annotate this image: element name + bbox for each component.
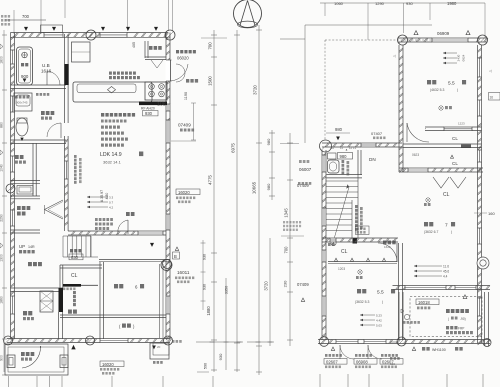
svg-text:1345: 1345 <box>284 208 289 218</box>
svg-text:02607: 02607 <box>326 359 338 364</box>
svg-text:980: 980 <box>335 127 343 132</box>
svg-text:16011: 16011 <box>177 270 190 275</box>
svg-text:4775: 4775 <box>208 175 213 185</box>
svg-text:5.5: 5.5 <box>448 81 455 87</box>
svg-text:16020: 16020 <box>102 362 114 367</box>
svg-text:12 13: 12 13 <box>349 146 356 150</box>
svg-text:1290: 1290 <box>375 1 385 6</box>
svg-text:14R: 14R <box>28 245 35 249</box>
svg-text:11: 11 <box>340 146 343 150</box>
svg-text:16018: 16018 <box>418 300 430 305</box>
svg-text:5.03: 5.03 <box>376 324 382 328</box>
svg-text:1616: 1616 <box>41 69 52 74</box>
svg-text:WH1100: WH1100 <box>432 348 446 352</box>
svg-text:1300: 1300 <box>0 254 4 262</box>
svg-text:0.7: 0.7 <box>109 201 114 205</box>
svg-text:CL: CL <box>71 273 78 279</box>
svg-text:(3632 5.3: (3632 5.3 <box>355 300 369 304</box>
svg-text:1223: 1223 <box>458 122 465 126</box>
svg-text:07409: 07409 <box>297 282 309 287</box>
svg-text:B: B <box>174 254 177 259</box>
svg-text:590: 590 <box>204 363 208 369</box>
svg-text:3350: 3350 <box>225 286 229 294</box>
svg-text:830: 830 <box>71 255 79 260</box>
svg-text:900: 900 <box>0 355 4 361</box>
svg-text:CL: CL <box>443 192 450 198</box>
svg-text:1060: 1060 <box>334 1 344 6</box>
svg-text:108: 108 <box>157 102 166 108</box>
svg-text:16020: 16020 <box>178 190 190 195</box>
svg-text:20: 20 <box>157 345 161 349</box>
svg-text:FRP: FRP <box>458 327 464 331</box>
svg-text:(3632 6.7: (3632 6.7 <box>424 230 438 234</box>
svg-text:1625: 1625 <box>384 245 391 249</box>
svg-text:0623: 0623 <box>412 153 419 157</box>
svg-text:06007: 06007 <box>299 167 312 172</box>
svg-text:1800: 1800 <box>0 56 4 64</box>
svg-text:1190: 1190 <box>184 92 188 100</box>
svg-text:700: 700 <box>22 14 30 19</box>
svg-text:CL: CL <box>452 161 458 166</box>
svg-text:160: 160 <box>488 211 495 216</box>
svg-text:930: 930 <box>203 254 207 260</box>
svg-text:930: 930 <box>203 284 207 290</box>
svg-text:5.5: 5.5 <box>377 290 384 296</box>
svg-text:11.6: 11.6 <box>443 265 449 269</box>
svg-text:06020: 06020 <box>177 56 189 61</box>
svg-text:16: 16 <box>490 96 494 100</box>
svg-text:405: 405 <box>132 42 136 48</box>
svg-text:930: 930 <box>406 1 413 6</box>
svg-text:7: 7 <box>445 223 448 229</box>
svg-text:020: 020 <box>390 362 395 366</box>
svg-text:3720: 3720 <box>253 85 258 95</box>
svg-text:DN: DN <box>369 157 376 162</box>
svg-text:10: 10 <box>331 146 335 150</box>
svg-text:880: 880 <box>0 122 4 128</box>
svg-text:): ) <box>457 88 458 92</box>
svg-text:0824: 0824 <box>462 54 466 61</box>
svg-text:UP: UP <box>19 244 25 249</box>
svg-text:LDK 14.9: LDK 14.9 <box>100 152 122 158</box>
svg-text:3720: 3720 <box>264 281 269 291</box>
svg-text:1860: 1860 <box>0 296 4 304</box>
svg-text:4.2: 4.2 <box>109 206 114 210</box>
svg-text:1040: 1040 <box>0 164 4 172</box>
svg-text:06908: 06908 <box>356 359 368 364</box>
svg-text:980: 980 <box>266 138 271 145</box>
svg-text:45.6: 45.6 <box>443 270 449 274</box>
svg-text:3.3: 3.3 <box>109 196 114 200</box>
svg-text:06909: 06909 <box>437 31 450 36</box>
svg-text:1980: 1980 <box>447 1 457 6</box>
svg-text:1880: 1880 <box>206 306 211 316</box>
svg-text:2430: 2430 <box>457 54 461 61</box>
svg-text:RF AH20: RF AH20 <box>141 107 155 111</box>
svg-text:700: 700 <box>208 42 213 50</box>
svg-text:▲: ▲ <box>345 148 348 152</box>
svg-text:CL: CL <box>452 136 458 141</box>
svg-text:700: 700 <box>284 246 289 254</box>
svg-text:980: 980 <box>340 154 348 159</box>
svg-text:900: 900 <box>21 74 29 79</box>
svg-text:5.23: 5.23 <box>376 314 382 318</box>
svg-text:3632 14.1: 3632 14.1 <box>103 160 122 165</box>
svg-text:6975: 6975 <box>231 143 236 153</box>
svg-text:930: 930 <box>218 353 223 360</box>
svg-text:CL: CL <box>341 249 348 255</box>
svg-text:230: 230 <box>283 280 288 287</box>
svg-text:(4632 5.3: (4632 5.3 <box>430 88 444 92</box>
svg-text:2290: 2290 <box>0 214 4 222</box>
svg-text:930: 930 <box>145 111 153 116</box>
svg-text:10665: 10665 <box>252 181 257 194</box>
svg-text:4.42: 4.42 <box>376 319 382 323</box>
svg-text:1203: 1203 <box>338 267 345 271</box>
svg-text:07407: 07407 <box>371 131 383 136</box>
svg-text:4.4: 4.4 <box>443 275 448 279</box>
svg-text:): ) <box>382 300 383 304</box>
svg-text:4.80: 4.80 <box>105 193 109 200</box>
svg-text:900x745: 900x745 <box>16 101 28 105</box>
svg-text:1500: 1500 <box>208 76 213 86</box>
svg-text:): ) <box>451 230 452 234</box>
svg-text:A 35.97: A 35.97 <box>100 190 104 202</box>
svg-text:980: 980 <box>266 183 271 190</box>
svg-text:U.B: U.B <box>42 63 50 68</box>
svg-text:07409: 07409 <box>178 123 191 128</box>
svg-text:-90): -90) <box>460 317 466 321</box>
